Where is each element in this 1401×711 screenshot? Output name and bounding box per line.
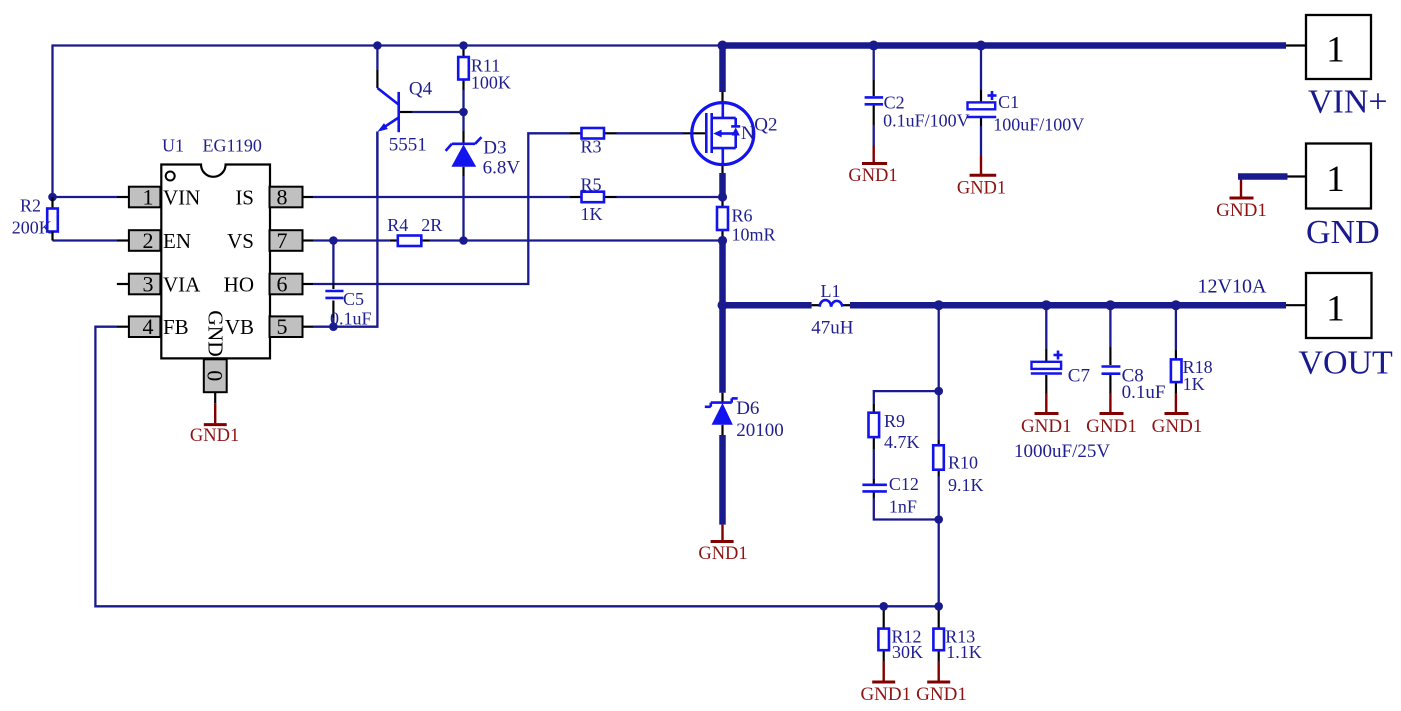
pin name FB <box>163 315 189 339</box>
svg-text:1: 1 <box>143 185 154 210</box>
svg-text:GND1: GND1 <box>1216 200 1267 221</box>
svg-text:5551: 5551 <box>389 135 427 156</box>
svg-text:10mR: 10mR <box>732 225 776 245</box>
node top rail Q4 <box>373 41 382 50</box>
svg-text:GND1: GND1 <box>1021 416 1072 437</box>
resistor R3 <box>581 128 605 157</box>
wire D3 column <box>462 112 464 241</box>
wire output rail left of L1 <box>723 302 821 309</box>
svg-text:VS: VS <box>227 229 254 253</box>
svg-text:R3: R3 <box>581 137 602 157</box>
wire D6 column thick <box>719 305 726 524</box>
connector GND <box>1306 144 1380 251</box>
svg-text:0: 0 <box>203 370 228 381</box>
svg-text:1nF: 1nF <box>889 497 917 517</box>
ground GND1 below U1 <box>190 392 239 446</box>
wire Q2 source <box>721 165 723 197</box>
svg-text:C2: C2 <box>884 93 905 113</box>
svg-text:C5: C5 <box>343 289 364 309</box>
wire EN row pin2 <box>53 239 130 241</box>
ground GND1 under C1 <box>957 175 1006 198</box>
pin name EN <box>163 229 191 253</box>
node fb R12 <box>879 602 888 611</box>
svg-text:12V10A: 12V10A <box>1198 276 1267 298</box>
node rail C1 <box>976 41 986 51</box>
pin 4 box <box>129 314 161 339</box>
svg-text:R5: R5 <box>581 175 602 195</box>
svg-text:0.1uF: 0.1uF <box>330 309 372 329</box>
transistor Q4 <box>377 79 432 198</box>
pin name VIA <box>163 273 201 297</box>
svg-text:GND1: GND1 <box>860 684 911 705</box>
node vout fb <box>934 300 944 310</box>
wire Q4 collector <box>376 46 378 89</box>
svg-text:9.1K: 9.1K <box>948 475 984 495</box>
svg-text:GND1: GND1 <box>698 544 747 564</box>
pin name IS <box>235 186 254 210</box>
pin 6 box <box>270 272 303 297</box>
svg-text:1000uF/25V: 1000uF/25V <box>1014 441 1110 462</box>
node fb R13 <box>934 602 943 611</box>
node vout C7 <box>1041 300 1051 310</box>
svg-text:C7: C7 <box>1068 366 1090 387</box>
svg-text:VB: VB <box>225 315 254 339</box>
node C5 bottom VB <box>329 322 338 331</box>
capacitor C2 <box>865 93 970 131</box>
svg-text:20100: 20100 <box>736 420 784 441</box>
resistor R4 <box>387 215 442 246</box>
wire VIN row pin1 <box>53 196 130 198</box>
svg-text:VIN+: VIN+ <box>1308 84 1388 121</box>
wire R6 leads <box>721 197 723 241</box>
net label 12V10A <box>1198 276 1267 298</box>
svg-text:6: 6 <box>277 272 288 297</box>
node switch / L1 / D6 <box>718 300 728 310</box>
capacitor C1 polarized <box>967 91 1085 135</box>
svg-text:100uF/100V: 100uF/100V <box>993 115 1084 135</box>
svg-text:0.1uF: 0.1uF <box>1122 382 1166 403</box>
svg-text:GND: GND <box>204 310 228 357</box>
svg-text:VIN: VIN <box>163 186 200 210</box>
wire VS row <box>303 239 723 241</box>
ground GND1 under R18 <box>1152 414 1203 438</box>
svg-text:GND1: GND1 <box>848 166 897 186</box>
svg-text:4: 4 <box>143 314 154 339</box>
node fb loop top <box>934 387 943 396</box>
wire R11 column <box>462 46 464 113</box>
wire GND connector stub <box>1238 177 1306 198</box>
diode D6 schottky <box>705 398 784 441</box>
wire HO row to R3 <box>303 133 707 284</box>
diode D3 zener <box>446 137 521 178</box>
svg-text:R2: R2 <box>20 196 41 216</box>
svg-text:1K: 1K <box>581 204 603 224</box>
wire FB net <box>95 327 938 607</box>
resistor R12 <box>878 627 923 663</box>
wire VB row <box>303 132 378 327</box>
svg-text:GND1: GND1 <box>190 426 239 446</box>
svg-text:5: 5 <box>277 314 288 339</box>
svg-text:2: 2 <box>143 228 154 253</box>
svg-text:1: 1 <box>1326 159 1345 200</box>
resistor R5 <box>581 175 605 225</box>
node fb loop bottom <box>934 515 943 524</box>
U1 designator text <box>162 136 262 156</box>
svg-text:1.1K: 1.1K <box>946 642 982 662</box>
wire Q2 drain <box>719 46 726 104</box>
svg-text:VIA: VIA <box>163 273 201 297</box>
wire C5 column <box>332 241 334 327</box>
wire R18 column <box>1175 305 1177 413</box>
svg-text:GND1: GND1 <box>1152 416 1203 437</box>
wire C1 column <box>980 46 982 176</box>
resistor R10 <box>933 445 983 495</box>
svg-text:Q2: Q2 <box>754 115 777 136</box>
node rail Q2 drain <box>718 41 728 51</box>
connector VOUT <box>1298 273 1393 381</box>
svg-text:L1: L1 <box>821 281 841 301</box>
inductor L1 <box>811 281 854 339</box>
svg-text:R9: R9 <box>884 411 905 431</box>
svg-text:100K: 100K <box>471 73 511 93</box>
node R6 bottom / VS <box>718 236 727 245</box>
pin 5 box <box>270 314 303 339</box>
capacitor C5 <box>325 289 371 329</box>
wire feedback column <box>938 305 940 606</box>
svg-text:3: 3 <box>143 272 154 297</box>
transistor Q2 MOSFET <box>692 103 778 165</box>
svg-text:HO: HO <box>224 273 254 297</box>
svg-text:R4: R4 <box>387 215 408 235</box>
pin name VB <box>225 315 254 339</box>
resistor R13 <box>933 627 981 663</box>
wire R13 leads <box>938 606 940 681</box>
svg-text:6.8V: 6.8V <box>483 158 521 179</box>
resistor R18 <box>1171 357 1213 394</box>
resistor R6 <box>717 206 776 245</box>
svg-text:C1: C1 <box>998 92 1019 112</box>
svg-text:VOUT: VOUT <box>1298 344 1393 381</box>
pin 3 box <box>129 272 161 297</box>
pin 2 box <box>129 228 161 253</box>
ground GND1 under C7 <box>1021 414 1072 438</box>
wire pin3 stub <box>117 283 129 285</box>
node vout C8 <box>1105 300 1115 310</box>
ground GND1 under C8 <box>1086 414 1137 438</box>
svg-text:U1: U1 <box>162 136 184 156</box>
svg-text:1: 1 <box>1326 288 1345 329</box>
pin 8 box <box>270 185 303 210</box>
node top rail R11 <box>459 41 468 50</box>
wire output rail right of L1 <box>842 304 1306 306</box>
svg-text:2R: 2R <box>421 215 442 235</box>
pin name VIN <box>163 186 200 210</box>
svg-text:R6: R6 <box>732 206 753 226</box>
node D3 / VS <box>459 236 468 245</box>
resistor R11 <box>458 56 511 93</box>
svg-text:R10: R10 <box>948 453 978 473</box>
svg-text:0.1uF/100V: 0.1uF/100V <box>883 111 970 131</box>
pin 1 box <box>129 185 161 210</box>
svg-text:IS: IS <box>235 186 254 210</box>
node Q4 base / R11 / D3 <box>459 108 468 117</box>
svg-text:GND: GND <box>1306 214 1380 251</box>
wire R12 leads <box>883 606 885 681</box>
svg-text:FB: FB <box>163 315 189 339</box>
svg-text:8: 8 <box>277 185 288 210</box>
svg-text:47uH: 47uH <box>811 318 854 339</box>
pin 7 box <box>270 228 303 253</box>
ground GND1 under C2 <box>848 164 897 187</box>
op-amp U1 EG1190 body <box>161 165 270 359</box>
node Q2 source / R5 / R6 <box>718 192 727 201</box>
svg-text:GND1: GND1 <box>916 684 967 705</box>
node C5 top VS <box>329 236 338 245</box>
resistor R2 <box>12 196 58 241</box>
wire Q4 base to node <box>399 111 464 113</box>
svg-text:GND1: GND1 <box>1086 416 1137 437</box>
svg-text:D3: D3 <box>483 138 506 159</box>
svg-text:Q4: Q4 <box>409 79 433 100</box>
ground GND1 under D6 <box>698 525 747 564</box>
wire C7 column <box>1045 305 1047 413</box>
pin name VS <box>227 229 254 253</box>
capacitor C12 <box>862 474 919 517</box>
svg-text:4.7K: 4.7K <box>884 432 920 452</box>
ground GND1 under R13 <box>916 682 967 705</box>
ground GND1 at GND connector <box>1216 198 1267 221</box>
svg-text:C12: C12 <box>889 474 919 494</box>
node vout R18 <box>1171 300 1181 310</box>
wire R9 C12 loop <box>874 391 939 519</box>
wire IS row <box>303 196 723 198</box>
resistor R9 <box>869 411 920 452</box>
wire switch node thick <box>719 241 726 306</box>
pin name GND rotated <box>204 310 228 357</box>
svg-text:1K: 1K <box>1183 374 1205 394</box>
svg-text:30K: 30K <box>892 642 923 662</box>
svg-text:200K: 200K <box>12 218 52 238</box>
wire thick input rail <box>723 42 1307 49</box>
wire top rail thin left <box>53 46 723 198</box>
U1 pin1 indicator circle <box>166 172 175 181</box>
capacitor C8 <box>1102 366 1166 404</box>
svg-text:EN: EN <box>163 229 191 253</box>
node VIN pin1/R2 <box>48 193 57 202</box>
svg-text:N: N <box>741 123 755 144</box>
capacitor C7 polarized <box>1014 351 1110 463</box>
ground GND1 under R12 <box>860 682 911 705</box>
node rail C2 <box>869 41 879 51</box>
wire C2 column <box>873 46 875 164</box>
connector VIN+ <box>1306 15 1388 121</box>
wire C8 column <box>1109 305 1111 413</box>
svg-text:GND1: GND1 <box>957 179 1006 199</box>
svg-text:EG1190: EG1190 <box>203 136 262 156</box>
svg-text:7: 7 <box>277 228 288 253</box>
svg-text:1: 1 <box>1326 30 1345 71</box>
svg-text:D6: D6 <box>736 398 759 419</box>
pin name HO <box>224 273 254 297</box>
pin 0 GND box <box>203 359 228 392</box>
